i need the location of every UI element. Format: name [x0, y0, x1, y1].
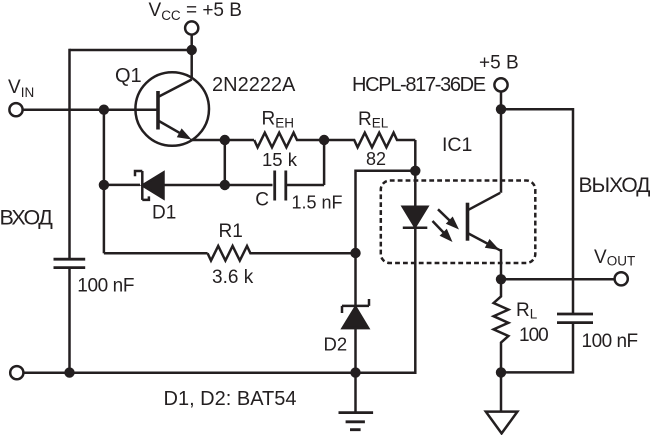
terminal VCC	[185, 21, 198, 34]
wire left vertical from top rail to input cap	[68, 49, 71, 259]
node RL bottom junction	[496, 367, 506, 377]
optocoupler IC1 dashed box	[381, 181, 536, 264]
ground (chassis, input side)	[339, 413, 374, 430]
svg-text:ВЫХОД: ВЫХОД	[579, 174, 650, 197]
svg-text:+5 В: +5 В	[479, 53, 519, 74]
wire emitter down to VOUT row	[500, 249, 503, 279]
svg-text:REL: REL	[358, 109, 389, 131]
svg-text:D1: D1	[152, 203, 176, 224]
wire top rail VCC	[70, 49, 192, 52]
wire VIN to base	[23, 108, 157, 111]
node D2 ground junction	[350, 367, 360, 377]
wire R1 junction down to D2	[354, 253, 357, 306]
wire D2 junction to chassis ground	[354, 373, 357, 413]
node emitter junction	[220, 135, 230, 145]
terminal +5V output side	[494, 78, 507, 91]
resistor R1	[208, 246, 356, 261]
node VOUT junction	[496, 274, 506, 284]
svg-text:R1: R1	[219, 221, 243, 242]
wire emitter junction down to D1 row	[224, 140, 227, 185]
wire REL down to LED node	[414, 140, 417, 171]
node bottom-left junction	[64, 367, 74, 377]
diode D1 (BAT54 schottky)	[135, 171, 164, 200]
transistor Q1	[135, 72, 209, 146]
phototransistor of IC1	[468, 193, 502, 251]
wire +5V terminal down	[500, 92, 503, 193]
svg-text:Q1: Q1	[115, 65, 142, 87]
node D1 right junction	[220, 180, 230, 190]
light arrow 2	[433, 221, 453, 242]
node base junction	[99, 105, 109, 115]
svg-text:2N2222A: 2N2222A	[212, 74, 296, 96]
node LED anode junction	[410, 166, 420, 176]
wire bottom rail	[24, 228, 416, 373]
node R1 right junction	[350, 248, 360, 258]
svg-text:D2: D2	[324, 334, 348, 355]
svg-text:VOUT: VOUT	[594, 247, 635, 269]
terminal input ground	[10, 366, 23, 379]
capacitor 100 nF (input decoupling)	[54, 259, 86, 267]
svg-text:100 nF: 100 nF	[582, 331, 638, 352]
wire left vertical from input cap to bottom rail	[68, 269, 71, 373]
wire base junction down to D1 row	[103, 110, 106, 185]
svg-text:HCPL-817-36DE: HCPL-817-36DE	[352, 74, 486, 96]
terminal VIN	[9, 103, 22, 116]
svg-text:C: C	[255, 189, 269, 210]
svg-text:ВХОД: ВХОД	[0, 205, 53, 229]
node D1 left junction	[99, 180, 109, 190]
svg-text:VCC = +5 В: VCC = +5 В	[149, 0, 242, 23]
svg-text:VIN: VIN	[8, 77, 34, 100]
svg-text:REH: REH	[262, 109, 295, 131]
wire VCC terminal to collector	[190, 35, 193, 80]
wire R1 row	[104, 252, 208, 255]
wire +5V rail right and down to output cap	[501, 109, 573, 314]
wire RL bottom to ground	[500, 372, 503, 411]
svg-text:RL: RL	[516, 300, 538, 322]
svg-text:100: 100	[519, 325, 548, 346]
wire LED node left to R1 column	[356, 171, 416, 253]
wire C to REH junction	[287, 184, 324, 187]
diode D2 (BAT54 schottky)	[342, 299, 369, 328]
terminal VOUT	[615, 272, 628, 285]
svg-text:D1, D2: BAT54: D1, D2: BAT54	[164, 388, 297, 410]
node REH/REL junction	[319, 135, 329, 145]
wire D1 junction down to R1 row	[103, 185, 106, 253]
svg-text:1.5 nF: 1.5 nF	[292, 193, 343, 213]
wire D2 to bottom rail	[354, 328, 357, 373]
wire VOUT row	[501, 278, 615, 281]
node +5V junction	[496, 104, 506, 114]
svg-text:3.6 k: 3.6 k	[212, 267, 254, 288]
svg-text:82: 82	[366, 149, 386, 169]
ground (open triangle, output side)	[486, 412, 518, 434]
LED of IC1	[403, 171, 428, 228]
node VCC junction	[187, 45, 197, 55]
wire D1 row	[104, 184, 273, 187]
wire output cap to RL bottom	[501, 324, 573, 373]
wire emitter to REH	[190, 139, 254, 142]
resistor RL	[494, 279, 509, 372]
svg-text:100 nF: 100 nF	[77, 275, 134, 296]
capacitor C 1.5 nF	[275, 171, 286, 201]
resistor REL	[324, 133, 415, 148]
wire REH junction down to C row	[323, 140, 326, 185]
svg-text:15 k: 15 k	[262, 149, 298, 170]
light arrow 1	[438, 209, 459, 229]
resistor REH	[254, 133, 324, 148]
capacitor 100 nF (output)	[557, 314, 593, 323]
svg-text:IC1: IC1	[442, 134, 472, 156]
